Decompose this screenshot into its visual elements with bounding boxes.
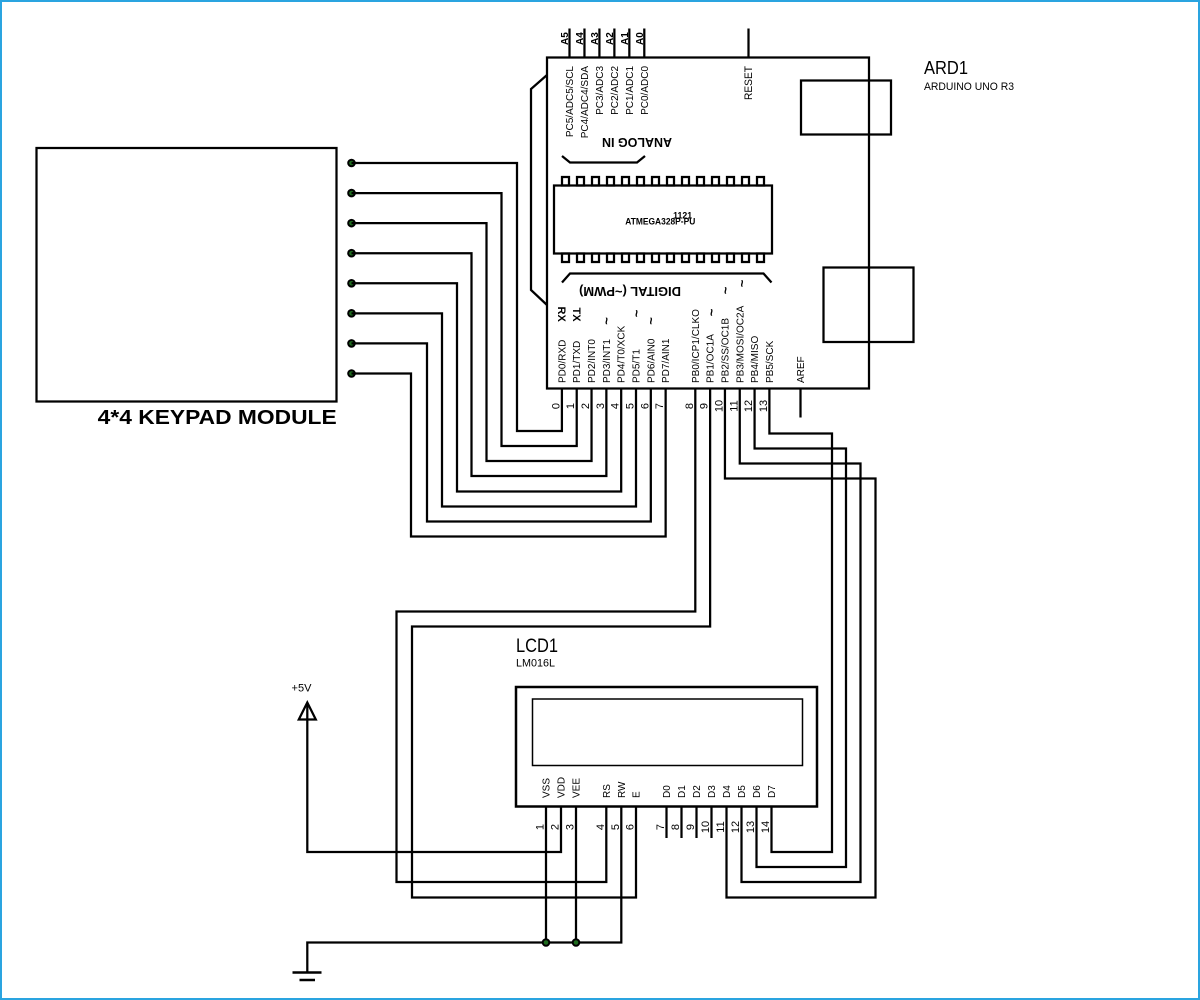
svg-text:ATMEGA328P-PU: ATMEGA328P-PU xyxy=(625,217,695,227)
svg-text:D7: D7 xyxy=(767,785,778,798)
svg-text:LCD1: LCD1 xyxy=(516,636,558,657)
svg-text:D5: D5 xyxy=(737,785,748,798)
svg-text:~: ~ xyxy=(735,279,750,287)
svg-text:12: 12 xyxy=(743,400,755,412)
svg-text:~: ~ xyxy=(644,317,659,325)
svg-text:13: 13 xyxy=(758,400,770,412)
svg-text:ARD1: ARD1 xyxy=(924,58,968,78)
svg-text:3: 3 xyxy=(595,403,607,409)
svg-text:LM016L: LM016L xyxy=(516,658,555,670)
svg-text:PD4/T0/XCK: PD4/T0/XCK xyxy=(617,325,628,383)
svg-text:PD7/AIN1: PD7/AIN1 xyxy=(661,338,672,383)
svg-text:+5V: +5V xyxy=(292,683,313,695)
svg-text:PD5/T1: PD5/T1 xyxy=(632,349,643,383)
svg-text:PC3/ADC3: PC3/ADC3 xyxy=(595,66,606,115)
svg-text:PD1/TXD: PD1/TXD xyxy=(572,341,583,383)
svg-text:PB2/SS/OC1B: PB2/SS/OC1B xyxy=(720,318,731,383)
svg-text:~: ~ xyxy=(704,308,719,316)
svg-text:9: 9 xyxy=(699,403,711,409)
svg-text:E: E xyxy=(632,791,643,798)
svg-text:8: 8 xyxy=(684,403,696,409)
svg-text:VSS: VSS xyxy=(542,778,553,798)
svg-text:ARDUINO UNO R3: ARDUINO UNO R3 xyxy=(924,81,1014,93)
svg-text:D3: D3 xyxy=(707,785,718,798)
svg-text:A2: A2 xyxy=(605,32,616,45)
svg-text:11: 11 xyxy=(728,400,740,411)
svg-text:VEE: VEE xyxy=(572,778,583,798)
svg-text:VDD: VDD xyxy=(557,777,568,798)
svg-text:ANALOG IN: ANALOG IN xyxy=(602,135,672,150)
svg-text:RX: RX xyxy=(555,307,567,323)
svg-text:A0: A0 xyxy=(635,32,646,45)
svg-text:PB4/MISO: PB4/MISO xyxy=(750,336,761,383)
svg-text:7: 7 xyxy=(655,824,667,830)
svg-text:7: 7 xyxy=(654,403,666,409)
svg-text:PC2/ADC2: PC2/ADC2 xyxy=(610,66,621,115)
svg-text:2: 2 xyxy=(550,824,562,830)
svg-text:PC5/ADC5/SCL: PC5/ADC5/SCL xyxy=(565,66,576,138)
svg-text:PD2/INT0: PD2/INT0 xyxy=(587,339,598,383)
svg-text:PB0/ICP1/CLKO: PB0/ICP1/CLKO xyxy=(691,309,702,383)
svg-text:13: 13 xyxy=(745,821,757,833)
svg-text:RW: RW xyxy=(617,781,628,798)
svg-text:0: 0 xyxy=(550,403,562,409)
svg-text:D2: D2 xyxy=(692,785,703,798)
svg-text:1: 1 xyxy=(565,403,577,409)
svg-text:RS: RS xyxy=(602,784,613,798)
svg-text:PD6/AIN0: PD6/AIN0 xyxy=(646,338,657,383)
svg-text:10: 10 xyxy=(713,400,725,412)
svg-text:8: 8 xyxy=(670,824,682,830)
svg-text:PB3/MOSI/OC2A: PB3/MOSI/OC2A xyxy=(735,305,746,383)
svg-text:3: 3 xyxy=(565,824,577,830)
svg-text:PB1/OC1A: PB1/OC1A xyxy=(706,334,717,383)
svg-text:5: 5 xyxy=(610,824,622,830)
svg-text:D6: D6 xyxy=(752,785,763,798)
svg-text:A4: A4 xyxy=(575,32,586,45)
svg-text:4*4 KEYPAD MODULE: 4*4 KEYPAD MODULE xyxy=(98,407,337,429)
svg-text:6: 6 xyxy=(625,824,637,830)
svg-text:~: ~ xyxy=(629,309,644,317)
svg-text:~: ~ xyxy=(718,286,733,294)
svg-text:DIGITAL (~PWM): DIGITAL (~PWM) xyxy=(579,284,681,299)
svg-text:D1: D1 xyxy=(677,785,688,798)
svg-text:4: 4 xyxy=(610,403,622,409)
svg-text:11: 11 xyxy=(715,821,727,832)
svg-text:2: 2 xyxy=(580,403,592,409)
svg-text:D0: D0 xyxy=(662,785,673,798)
svg-text:A5: A5 xyxy=(560,32,571,45)
svg-text:PC0/ADC0: PC0/ADC0 xyxy=(640,66,651,115)
svg-text:AREF: AREF xyxy=(796,356,807,383)
svg-text:PD0/RXD: PD0/RXD xyxy=(557,340,568,383)
svg-text:5: 5 xyxy=(625,403,637,409)
svg-text:PC4/ADC4/SDA: PC4/ADC4/SDA xyxy=(580,66,591,139)
svg-text:4: 4 xyxy=(595,824,607,830)
svg-text:12: 12 xyxy=(730,821,742,833)
svg-text:D4: D4 xyxy=(722,785,733,798)
svg-text:A1: A1 xyxy=(620,32,631,45)
svg-text:PD3/INT1: PD3/INT1 xyxy=(602,339,613,383)
svg-text:TX: TX xyxy=(570,308,582,323)
svg-text:10: 10 xyxy=(700,821,712,833)
svg-text:A3: A3 xyxy=(590,32,601,45)
svg-text:1: 1 xyxy=(535,824,547,830)
svg-text:9: 9 xyxy=(685,824,697,830)
svg-text:6: 6 xyxy=(639,403,651,409)
svg-text:PC1/ADC1: PC1/ADC1 xyxy=(625,66,636,115)
svg-text:RESET: RESET xyxy=(743,66,755,100)
svg-text:~: ~ xyxy=(599,317,614,325)
svg-text:14: 14 xyxy=(760,821,772,833)
svg-text:PB5/SCK: PB5/SCK xyxy=(765,340,776,383)
